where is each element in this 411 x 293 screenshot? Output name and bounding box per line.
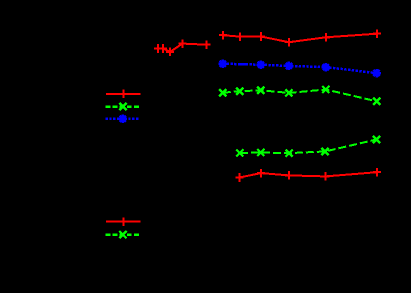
curve red2 plus markers [236, 168, 381, 182]
legend1 blue entry: dotted sample and asterisk marker [106, 115, 140, 123]
legend1 green entry: dashed sample and x marker [106, 103, 140, 110]
curve red1 right segment line [223, 34, 377, 43]
curve green2 x markers [236, 136, 380, 157]
curve green1 x markers [219, 86, 380, 105]
curve red1 right segment plus markers [219, 29, 381, 46]
curve red1 left segment plus markers [154, 39, 211, 56]
legend2 green entry: dashed sample and x marker [106, 231, 140, 238]
legend1 red entry: line sample and plus marker [106, 90, 141, 99]
curve blue long dash at x 242 [239, 63, 246, 66]
curve blue dotted line [223, 64, 377, 73]
curve green1 dashed line [223, 90, 377, 102]
curve green2 dashed line [240, 140, 377, 154]
curve blue asterisk markers [219, 60, 381, 78]
curve red2 line [240, 172, 377, 177]
legend2 red entry: line sample and plus marker [106, 217, 141, 226]
curve red1 left segment line [158, 44, 207, 52]
